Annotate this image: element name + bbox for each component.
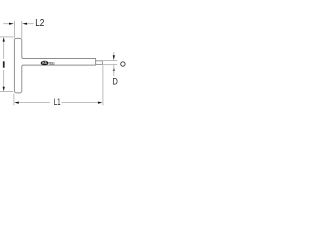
dimension D line upper segment [113, 52, 115, 56]
dimension I extension line top [0, 36, 14, 38]
dimension L2 right tail line [27, 23, 33, 25]
dimension L1 line left segment [19, 102, 50, 104]
svg-text:KS: KS [42, 61, 46, 65]
svg-text:D: D [113, 76, 118, 86]
dimension D line lower segment [113, 65, 115, 76]
dimension D lower arrowhead [113, 67, 115, 71]
dimension D extension line bottom [103, 64, 118, 66]
dimension L1 right arrowhead [98, 102, 103, 104]
dimension I top arrowhead [3, 37, 5, 42]
KS Tools logo ellipse on shaft [41, 61, 49, 66]
dimension L1 left arrowhead [14, 102, 18, 104]
dimension L2 left tail line [3, 23, 10, 25]
svg-text:TOOLS: TOOLS [49, 61, 55, 65]
svg-text:L1: L1 [54, 96, 61, 107]
dimension L2 left arrowhead [9, 23, 14, 25]
dimension L2 right arrowhead [22, 23, 27, 25]
dimension L1 extension line right [102, 65, 104, 105]
dimension I line lower segment [3, 70, 5, 87]
hex tip at end of shaft [96, 61, 103, 65]
dimension L2 extension line right [21, 21, 23, 38]
svg-text:L2: L2 [35, 18, 45, 29]
dimension L2 extension line left [13, 21, 15, 38]
label I [3, 61, 5, 67]
dimension D upper arrowhead [113, 55, 115, 60]
dimension L1 line right segment [62, 102, 98, 104]
background [0, 0, 130, 130]
dimension D extension line top [103, 60, 118, 62]
T-handle body (crossbar + shaft) [14, 38, 95, 93]
diameter circle symbol [121, 62, 125, 66]
dimension I line upper segment [3, 41, 5, 60]
dimension I bottom arrowhead [3, 87, 5, 92]
dimension I extension line bottom [0, 90, 13, 92]
dimension L1 extension line left [13, 94, 15, 106]
